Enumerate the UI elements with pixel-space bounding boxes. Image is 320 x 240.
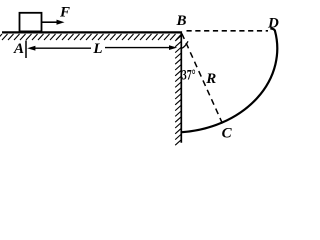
ground hatching <box>0 34 182 40</box>
angle arc at B <box>182 41 188 48</box>
dimension arrow left (L) <box>27 46 91 51</box>
dimension arrow right (L) <box>105 45 177 50</box>
vertical wall line <box>180 33 182 142</box>
svg-text:R: R <box>205 71 216 87</box>
point A tick <box>25 41 27 59</box>
svg-text:A: A <box>13 41 24 57</box>
svg-text:B: B <box>175 13 186 29</box>
ground surface line <box>2 31 182 33</box>
dashed radius line B to C <box>182 34 223 124</box>
force arrow F <box>42 20 65 25</box>
svg-text:L: L <box>92 41 102 57</box>
wall hatching <box>175 36 181 146</box>
block (sliding mass) <box>20 13 42 32</box>
svg-text:C: C <box>222 125 233 141</box>
dashed line B to D <box>187 30 269 32</box>
svg-text:37°: 37° <box>182 67 196 83</box>
circular arc track D to C <box>182 28 277 132</box>
svg-text:F: F <box>59 4 70 20</box>
